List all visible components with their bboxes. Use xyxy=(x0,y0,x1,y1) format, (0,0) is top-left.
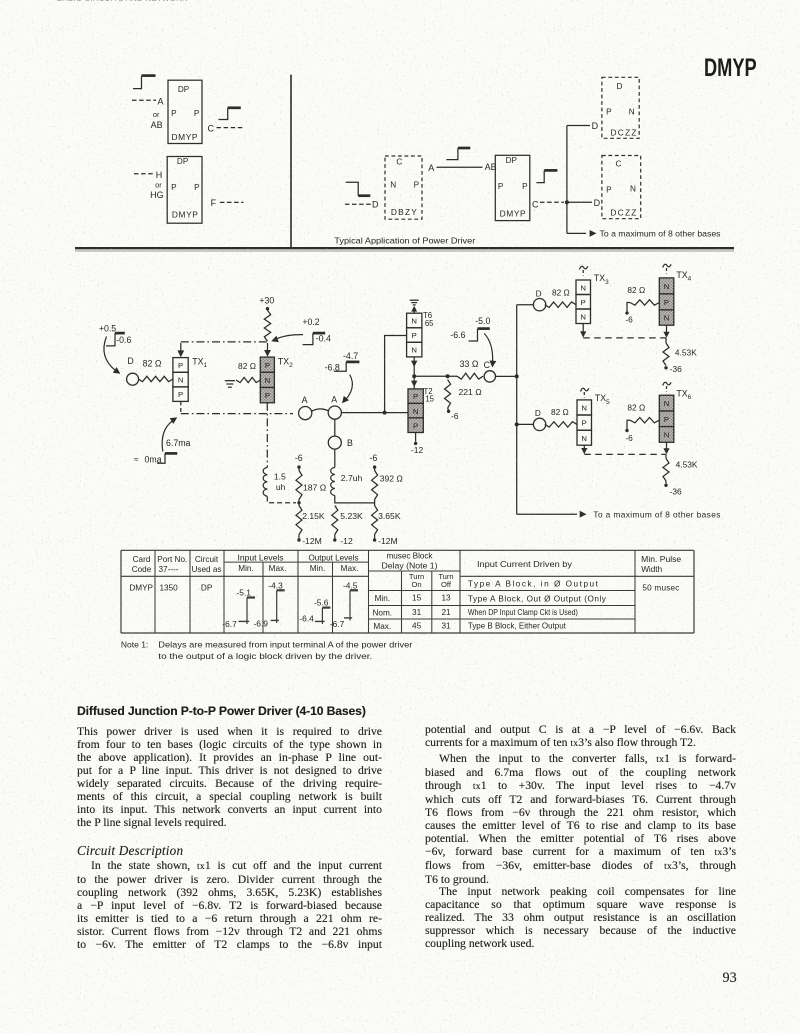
resistor 2.15K xyxy=(296,506,302,535)
wire dash-dot rail TX1 top to +30 node xyxy=(181,341,268,343)
wire arc between A nodes xyxy=(312,409,329,411)
wire dashed TX5 to TX6 emitter xyxy=(584,453,666,455)
output level Max glyph xyxy=(349,590,351,620)
waveform step at input A xyxy=(133,76,142,89)
heading Diffused Junction P-to-P Power Driver xyxy=(77,704,377,718)
wire 1.5uh to divider node xyxy=(267,497,296,503)
logic block U3 DBZY xyxy=(385,156,422,219)
junction dot on C fanout xyxy=(565,200,569,204)
pigtail above TX6 xyxy=(666,386,668,392)
return -12M (right) xyxy=(374,535,376,539)
junction dot T6/T2/33Ω xyxy=(412,374,416,378)
inductor 1.5uh xyxy=(263,468,267,497)
junction dot at T6 branch xyxy=(383,411,387,415)
cropped running-head text at top edge xyxy=(57,0,205,4)
logic block U5 DCZZ (upper) xyxy=(602,77,639,138)
logic block U6 DCZZ (lower) xyxy=(602,156,641,219)
resistor 187Ω xyxy=(298,468,300,470)
ground above T6 xyxy=(410,299,419,301)
wire TX2 emitter dash-dot down xyxy=(266,403,268,468)
page number 93 xyxy=(723,970,737,987)
wire 2.7uh to 392Ω node xyxy=(335,496,375,503)
ground at TX2 base resistor xyxy=(225,380,235,382)
wire arrow into TX1 top xyxy=(180,343,182,352)
pigtail above TX4 xyxy=(666,268,668,274)
arrow 6.7ma current xyxy=(162,421,173,452)
transistor T6 xyxy=(407,313,422,328)
node B xyxy=(334,419,336,437)
wire input H to U2 xyxy=(134,173,155,175)
transistor TX1 xyxy=(173,358,188,373)
paragraph right 1 xyxy=(425,723,736,750)
return -6 at TX4 base xyxy=(625,311,628,314)
paragraph right 3 xyxy=(425,885,736,950)
wire 187Ω to 2.15K xyxy=(298,500,300,506)
wire fanout to node D (upper) xyxy=(517,304,534,306)
resistor 3.65K xyxy=(372,506,378,535)
return -6 at 221Ω xyxy=(447,408,450,410)
transistor TX2 xyxy=(260,357,274,372)
waveform step -0.6 at input xyxy=(106,333,115,346)
junction dot fanout lower xyxy=(515,422,519,426)
table grid xyxy=(121,549,694,551)
waveform step on A-AB wire xyxy=(446,148,458,160)
logic block U2 DMYP (H or HG input) xyxy=(167,157,202,224)
wire emitter node to 33Ω xyxy=(414,375,457,377)
transistor T2 xyxy=(408,389,423,404)
wire dash-dot rail TX1 bottom xyxy=(180,401,182,413)
wire node B down xyxy=(334,449,336,468)
output level Min glyph xyxy=(321,608,323,624)
wire junction up to T6 base xyxy=(385,336,407,413)
arrow from -4.7 step to node A xyxy=(346,375,353,400)
wire arrow to 8 other bases (schematic) xyxy=(517,513,577,515)
junction dot fanout upper xyxy=(515,374,519,378)
inductor 2.7uh xyxy=(331,468,335,496)
junction dot 221Ω xyxy=(446,374,450,378)
paragraph left 1 xyxy=(77,725,382,829)
pigtail above TX3 xyxy=(582,270,584,276)
wire fanout vertical xyxy=(566,126,568,234)
resistor 221Ω xyxy=(445,380,451,409)
wire TX5 emitter arrow xyxy=(583,445,585,449)
transistor TX6 xyxy=(659,395,674,411)
wire arrow into TX2 top xyxy=(267,343,269,352)
waveform step at output C of U4 xyxy=(536,170,544,182)
waveform step -0.4 xyxy=(303,333,313,345)
wire divider line between diagram sections xyxy=(290,75,292,249)
section bottom rule xyxy=(75,247,734,249)
input level Max glyph xyxy=(276,590,278,623)
pigtail above TX5 xyxy=(583,392,585,398)
wire node A to T2 base xyxy=(341,412,408,414)
return -12 at T2 xyxy=(415,433,417,442)
return -12M (left) xyxy=(298,535,300,539)
return -6 at TX6 base xyxy=(625,429,628,432)
resistor 4.53K (upper) xyxy=(665,338,667,343)
return -12 (middle) xyxy=(334,535,336,539)
wire arrow to 8 other bases (top) xyxy=(567,232,586,234)
waveform step at input D of U3 xyxy=(346,182,358,195)
resistor 5.23K xyxy=(332,506,338,535)
wire TX3 emitter arrow xyxy=(582,324,584,332)
input level Min glyph xyxy=(246,598,248,625)
transistor TX4 xyxy=(659,278,674,294)
wire fanout vertical (main) xyxy=(516,305,518,515)
wire input D to U3 xyxy=(345,203,371,205)
paragraph right 2 xyxy=(425,752,736,886)
wire input A to U1 xyxy=(132,99,156,101)
wire TX4 emitter arrow xyxy=(666,325,668,332)
wire node C to fanout xyxy=(496,375,517,377)
wire C output to fanout junction xyxy=(540,201,564,203)
wire T6 emitter arrows to T2 xyxy=(413,357,415,389)
subheading Circuit Description xyxy=(77,843,183,859)
wire junction to upper DCZZ D input xyxy=(567,125,590,127)
return -36 (upper) xyxy=(664,366,667,369)
arrow from -0.4 step to +30 junction xyxy=(276,335,304,340)
wire dashed TX3 to TX4 emitter xyxy=(583,337,666,339)
paragraph left 2 xyxy=(77,859,382,951)
wire 392Ω to 3.65K xyxy=(374,500,376,506)
wire TX6 emitter arrow xyxy=(666,442,668,448)
resistor 392Ω xyxy=(374,468,376,470)
resistor 33Ω xyxy=(457,373,483,379)
arrow from step to node C xyxy=(484,334,492,362)
resistor 4.53K (lower) xyxy=(665,454,667,458)
transistor TX3 xyxy=(576,280,591,295)
logic block U1 DMYP (A or AB input) xyxy=(168,80,202,143)
return -36 (lower) xyxy=(665,481,667,484)
resistor from +30 supply xyxy=(264,310,270,341)
wire junction to lower DCZZ D input xyxy=(567,201,592,203)
wire fanout to node D (lower) xyxy=(517,423,534,425)
logic block U4 DMYP (driver) xyxy=(495,155,530,220)
waveform step at output C of U1 xyxy=(219,108,228,120)
arrow from +0.5 to terminal D xyxy=(104,337,116,371)
transistor TX5 xyxy=(577,400,592,415)
